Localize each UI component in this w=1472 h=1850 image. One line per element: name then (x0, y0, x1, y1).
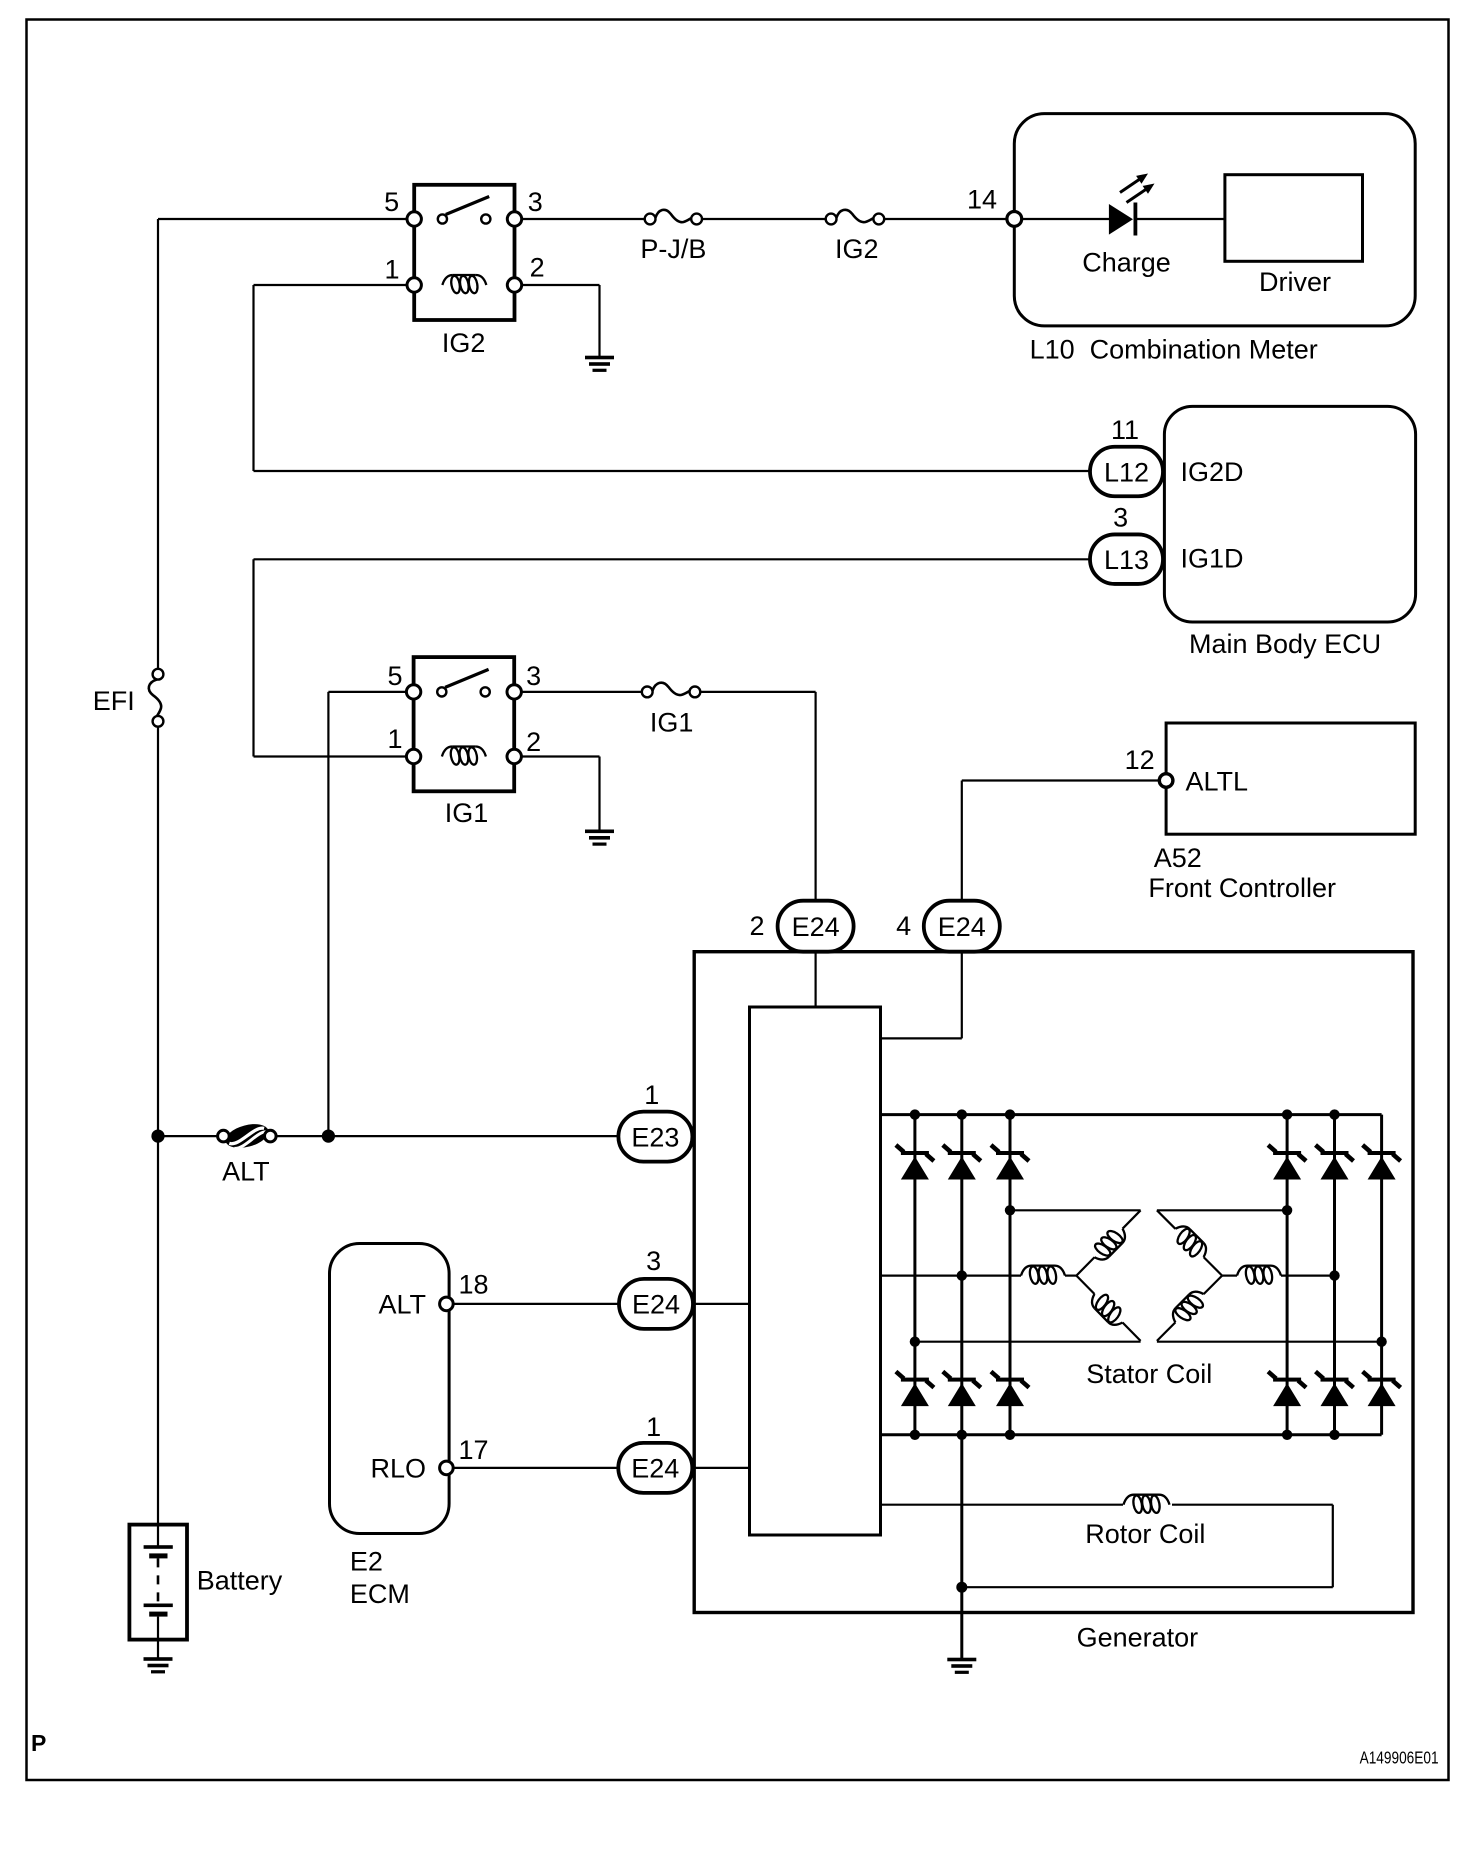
svg-text:Charge: Charge (1082, 247, 1171, 277)
svg-text:E24: E24 (792, 912, 840, 942)
svg-text:2: 2 (749, 911, 764, 941)
svg-text:Rotor Coil: Rotor Coil (1085, 1519, 1205, 1549)
svg-text:E23: E23 (631, 1122, 679, 1152)
svg-text:L10 Combination Meter: L10 Combination Meter (1030, 334, 1318, 364)
svg-text:P: P (31, 1730, 46, 1756)
svg-text:1: 1 (646, 1412, 661, 1442)
svg-text:P-J/B: P-J/B (640, 234, 706, 264)
svg-text:IG1: IG1 (445, 798, 489, 828)
svg-text:4: 4 (896, 911, 911, 941)
svg-text:18: 18 (458, 1269, 488, 1299)
svg-text:5: 5 (384, 187, 399, 217)
svg-text:RLO: RLO (370, 1454, 426, 1484)
svg-text:Generator: Generator (1077, 1622, 1199, 1652)
svg-text:ALT: ALT (378, 1290, 426, 1320)
svg-text:3: 3 (646, 1246, 661, 1276)
svg-text:1: 1 (644, 1080, 659, 1110)
svg-text:IG2: IG2 (835, 234, 879, 264)
svg-text:IG1: IG1 (650, 707, 694, 737)
svg-text:2: 2 (530, 253, 545, 283)
svg-text:IG1D: IG1D (1181, 544, 1244, 574)
svg-text:11: 11 (1111, 415, 1139, 445)
svg-text:L12: L12 (1104, 457, 1149, 487)
svg-text:E24: E24 (631, 1454, 679, 1484)
svg-text:Battery: Battery (197, 1565, 283, 1595)
svg-text:17: 17 (458, 1435, 488, 1465)
svg-text:Stator Coil: Stator Coil (1086, 1359, 1212, 1389)
svg-text:EFI: EFI (93, 686, 135, 716)
svg-text:A149906E01: A149906E01 (1360, 1748, 1439, 1768)
svg-text:ALT: ALT (222, 1156, 270, 1186)
svg-text:Main Body ECU: Main Body ECU (1189, 629, 1381, 659)
svg-text:IG2: IG2 (442, 328, 486, 358)
svg-text:Driver: Driver (1259, 267, 1331, 297)
svg-text:3: 3 (526, 661, 541, 691)
svg-text:5: 5 (387, 661, 402, 691)
svg-text:2: 2 (526, 727, 541, 757)
svg-text:Front Controller: Front Controller (1148, 873, 1336, 903)
svg-text:3: 3 (528, 187, 543, 217)
svg-text:1: 1 (387, 724, 402, 754)
svg-text:E24: E24 (938, 912, 986, 942)
svg-text:ALTL: ALTL (1186, 766, 1249, 796)
svg-text:E2: E2 (350, 1547, 383, 1577)
svg-text:ECM: ECM (350, 1579, 410, 1609)
svg-text:A52: A52 (1154, 843, 1202, 873)
svg-text:3: 3 (1113, 503, 1128, 533)
svg-text:14: 14 (967, 184, 997, 214)
svg-text:IG2D: IG2D (1181, 457, 1244, 487)
svg-text:12: 12 (1125, 745, 1155, 775)
svg-text:E24: E24 (632, 1290, 680, 1320)
svg-text:1: 1 (384, 254, 399, 284)
svg-text:L13: L13 (1104, 545, 1149, 575)
